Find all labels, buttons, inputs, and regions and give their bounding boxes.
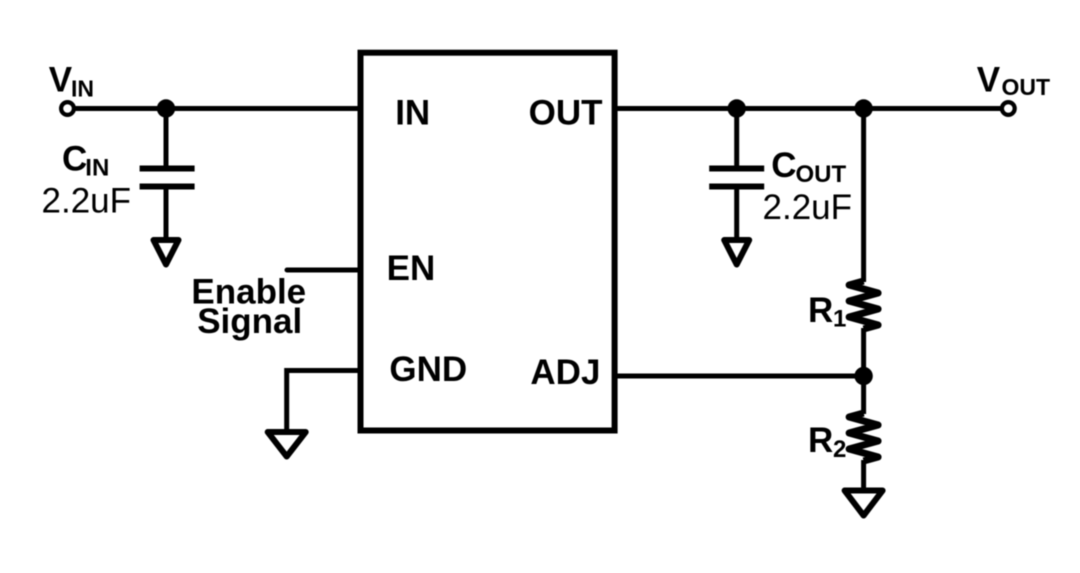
- wire: ADJ pin to divider node: [615, 374, 864, 379]
- resistor R2: [849, 413, 878, 461]
- svg-text:IN: IN: [71, 76, 94, 102]
- wire: OUT pin to VOUT terminal: [615, 106, 1009, 111]
- svg-text:2.2uF: 2.2uF: [763, 188, 853, 227]
- wire: junction down to COUT top plate: [734, 109, 739, 168]
- terminal VIN (open circle): [61, 102, 74, 115]
- node: R1 top junction dot: [854, 99, 872, 117]
- svg-text:OUT: OUT: [529, 94, 603, 133]
- svg-text:IN: IN: [395, 94, 430, 133]
- svg-text:OUT: OUT: [1002, 74, 1051, 100]
- ground (R2): [845, 491, 883, 516]
- ground (COUT): [724, 240, 749, 265]
- label R2: [808, 421, 846, 463]
- wire: junction down to R1: [861, 109, 866, 283]
- svg-text:GND: GND: [389, 350, 467, 389]
- wire: R2 bottom to ground: [861, 460, 866, 491]
- wire: COUT bottom plate to ground: [734, 187, 739, 241]
- svg-text:EN: EN: [387, 249, 436, 288]
- svg-text:2.2uF: 2.2uF: [42, 182, 132, 221]
- wire: R1 bottom to ADJ node: [861, 328, 866, 376]
- wire: GND pin to ground: [287, 371, 361, 432]
- resistor R1: [849, 281, 878, 329]
- capacitor C_IN plates: [140, 169, 195, 187]
- svg-text:1: 1: [833, 306, 846, 333]
- label VOUT: [977, 60, 1050, 100]
- label VIN: [49, 60, 94, 101]
- svg-text:IN: IN: [85, 155, 109, 182]
- wire: CIN bottom plate to ground: [164, 187, 169, 241]
- svg-text:C: C: [62, 140, 87, 179]
- svg-text:V: V: [977, 60, 1001, 99]
- svg-text:2: 2: [833, 436, 846, 463]
- svg-text:ADJ: ADJ: [530, 353, 600, 392]
- node: ADJ junction dot: [854, 367, 872, 385]
- svg-text:R: R: [808, 421, 833, 460]
- ground (CIN): [154, 240, 179, 265]
- regulator U1 box: [361, 53, 615, 431]
- capacitor C_OUT plates: [709, 169, 764, 187]
- ground (GND pin): [268, 432, 306, 457]
- wire: Enable signal stub to EN pin: [287, 268, 361, 273]
- svg-text:C: C: [771, 146, 796, 185]
- wire: node down to R2: [861, 376, 866, 414]
- svg-text:OUT: OUT: [796, 161, 847, 188]
- svg-text:Signal: Signal: [197, 302, 302, 341]
- label R1: [808, 291, 846, 333]
- svg-text:V: V: [49, 60, 73, 99]
- label Enable Signal: [191, 272, 306, 341]
- wire: junction down to CIN top plate: [164, 109, 169, 168]
- node: CIN junction dot: [157, 99, 175, 117]
- svg-text:R: R: [808, 291, 833, 330]
- wire: VIN input to IN pin: [68, 106, 361, 111]
- label COUT: [771, 146, 846, 188]
- terminal VOUT (open circle): [1002, 102, 1015, 115]
- label CIN: [62, 140, 109, 182]
- node: COUT junction dot: [728, 99, 746, 117]
